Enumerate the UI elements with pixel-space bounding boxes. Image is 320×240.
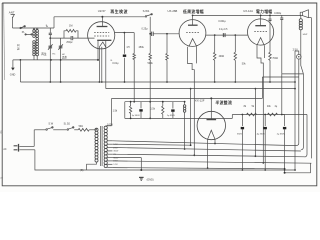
svg-text:KX-12F: KX-12F xyxy=(195,99,205,103)
svg-text:夜: 夜 xyxy=(0,130,3,134)
svg-text:1.5V: 1.5V xyxy=(113,164,118,166)
svg-text:0.25μ: 0.25μ xyxy=(142,28,149,31)
svg-text:低周波増幅: 低周波増幅 xyxy=(182,9,204,14)
svg-text:1μ 350V: 1μ 350V xyxy=(132,115,141,117)
svg-text:1.5k: 1.5k xyxy=(150,108,155,111)
svg-text:ANT: ANT xyxy=(9,10,15,14)
svg-text:350V: 350V xyxy=(113,151,118,153)
svg-text:1M: 1M xyxy=(69,24,72,27)
svg-text:UX-12A: UX-12A xyxy=(243,9,253,13)
svg-text:HC: HC xyxy=(52,54,56,56)
svg-text:0.01μ: 0.01μ xyxy=(112,62,119,65)
svg-text:400Ω: 400Ω xyxy=(219,56,225,58)
svg-text:電力増幅: 電力増幅 xyxy=(256,9,272,14)
svg-text:GND: GND xyxy=(10,73,16,76)
svg-text:250k: 250k xyxy=(139,46,145,49)
svg-text:500k: 500k xyxy=(148,62,154,65)
svg-text:1μ 350V: 1μ 350V xyxy=(167,115,176,117)
svg-text:(GND): (GND) xyxy=(147,178,154,181)
svg-text:1H: 1H xyxy=(126,46,129,49)
svg-text:1.5k: 1.5k xyxy=(113,110,118,113)
svg-text:350V: 350V xyxy=(237,134,243,136)
svg-text:(B): (B) xyxy=(80,169,83,172)
svg-text:半波整流: 半波整流 xyxy=(215,100,232,105)
svg-text:250pc: 250pc xyxy=(66,42,73,44)
svg-text:0.1μ 0.5: 0.1μ 0.5 xyxy=(219,29,228,31)
svg-text:0.001μ: 0.001μ xyxy=(218,20,226,23)
svg-text:UX-26B: UX-26B xyxy=(168,9,178,13)
svg-text:2μ 350V: 2μ 350V xyxy=(277,134,286,136)
svg-text:再生: 再生 xyxy=(62,56,68,60)
svg-text:UZ-57: UZ-57 xyxy=(98,9,106,13)
svg-text:(A): (A) xyxy=(0,177,3,180)
svg-text:4μ 350V: 4μ 350V xyxy=(257,134,266,136)
svg-text:0.002μ: 0.002μ xyxy=(274,13,282,15)
svg-text:再生: 再生 xyxy=(41,52,47,56)
svg-text:AC: AC xyxy=(3,148,7,151)
svg-text:HSP: HSP xyxy=(303,34,308,36)
svg-text:50Ω: 50Ω xyxy=(79,126,84,128)
svg-text:S.W1: S.W1 xyxy=(143,9,150,13)
svg-text:SL 5Ω: SL 5Ω xyxy=(64,124,71,126)
svg-text:S.W: S.W xyxy=(48,123,53,126)
svg-text:700Ω: 700Ω xyxy=(272,58,278,60)
svg-text:再生検波: 再生検波 xyxy=(110,9,128,14)
svg-text:HC: HC xyxy=(62,54,66,56)
